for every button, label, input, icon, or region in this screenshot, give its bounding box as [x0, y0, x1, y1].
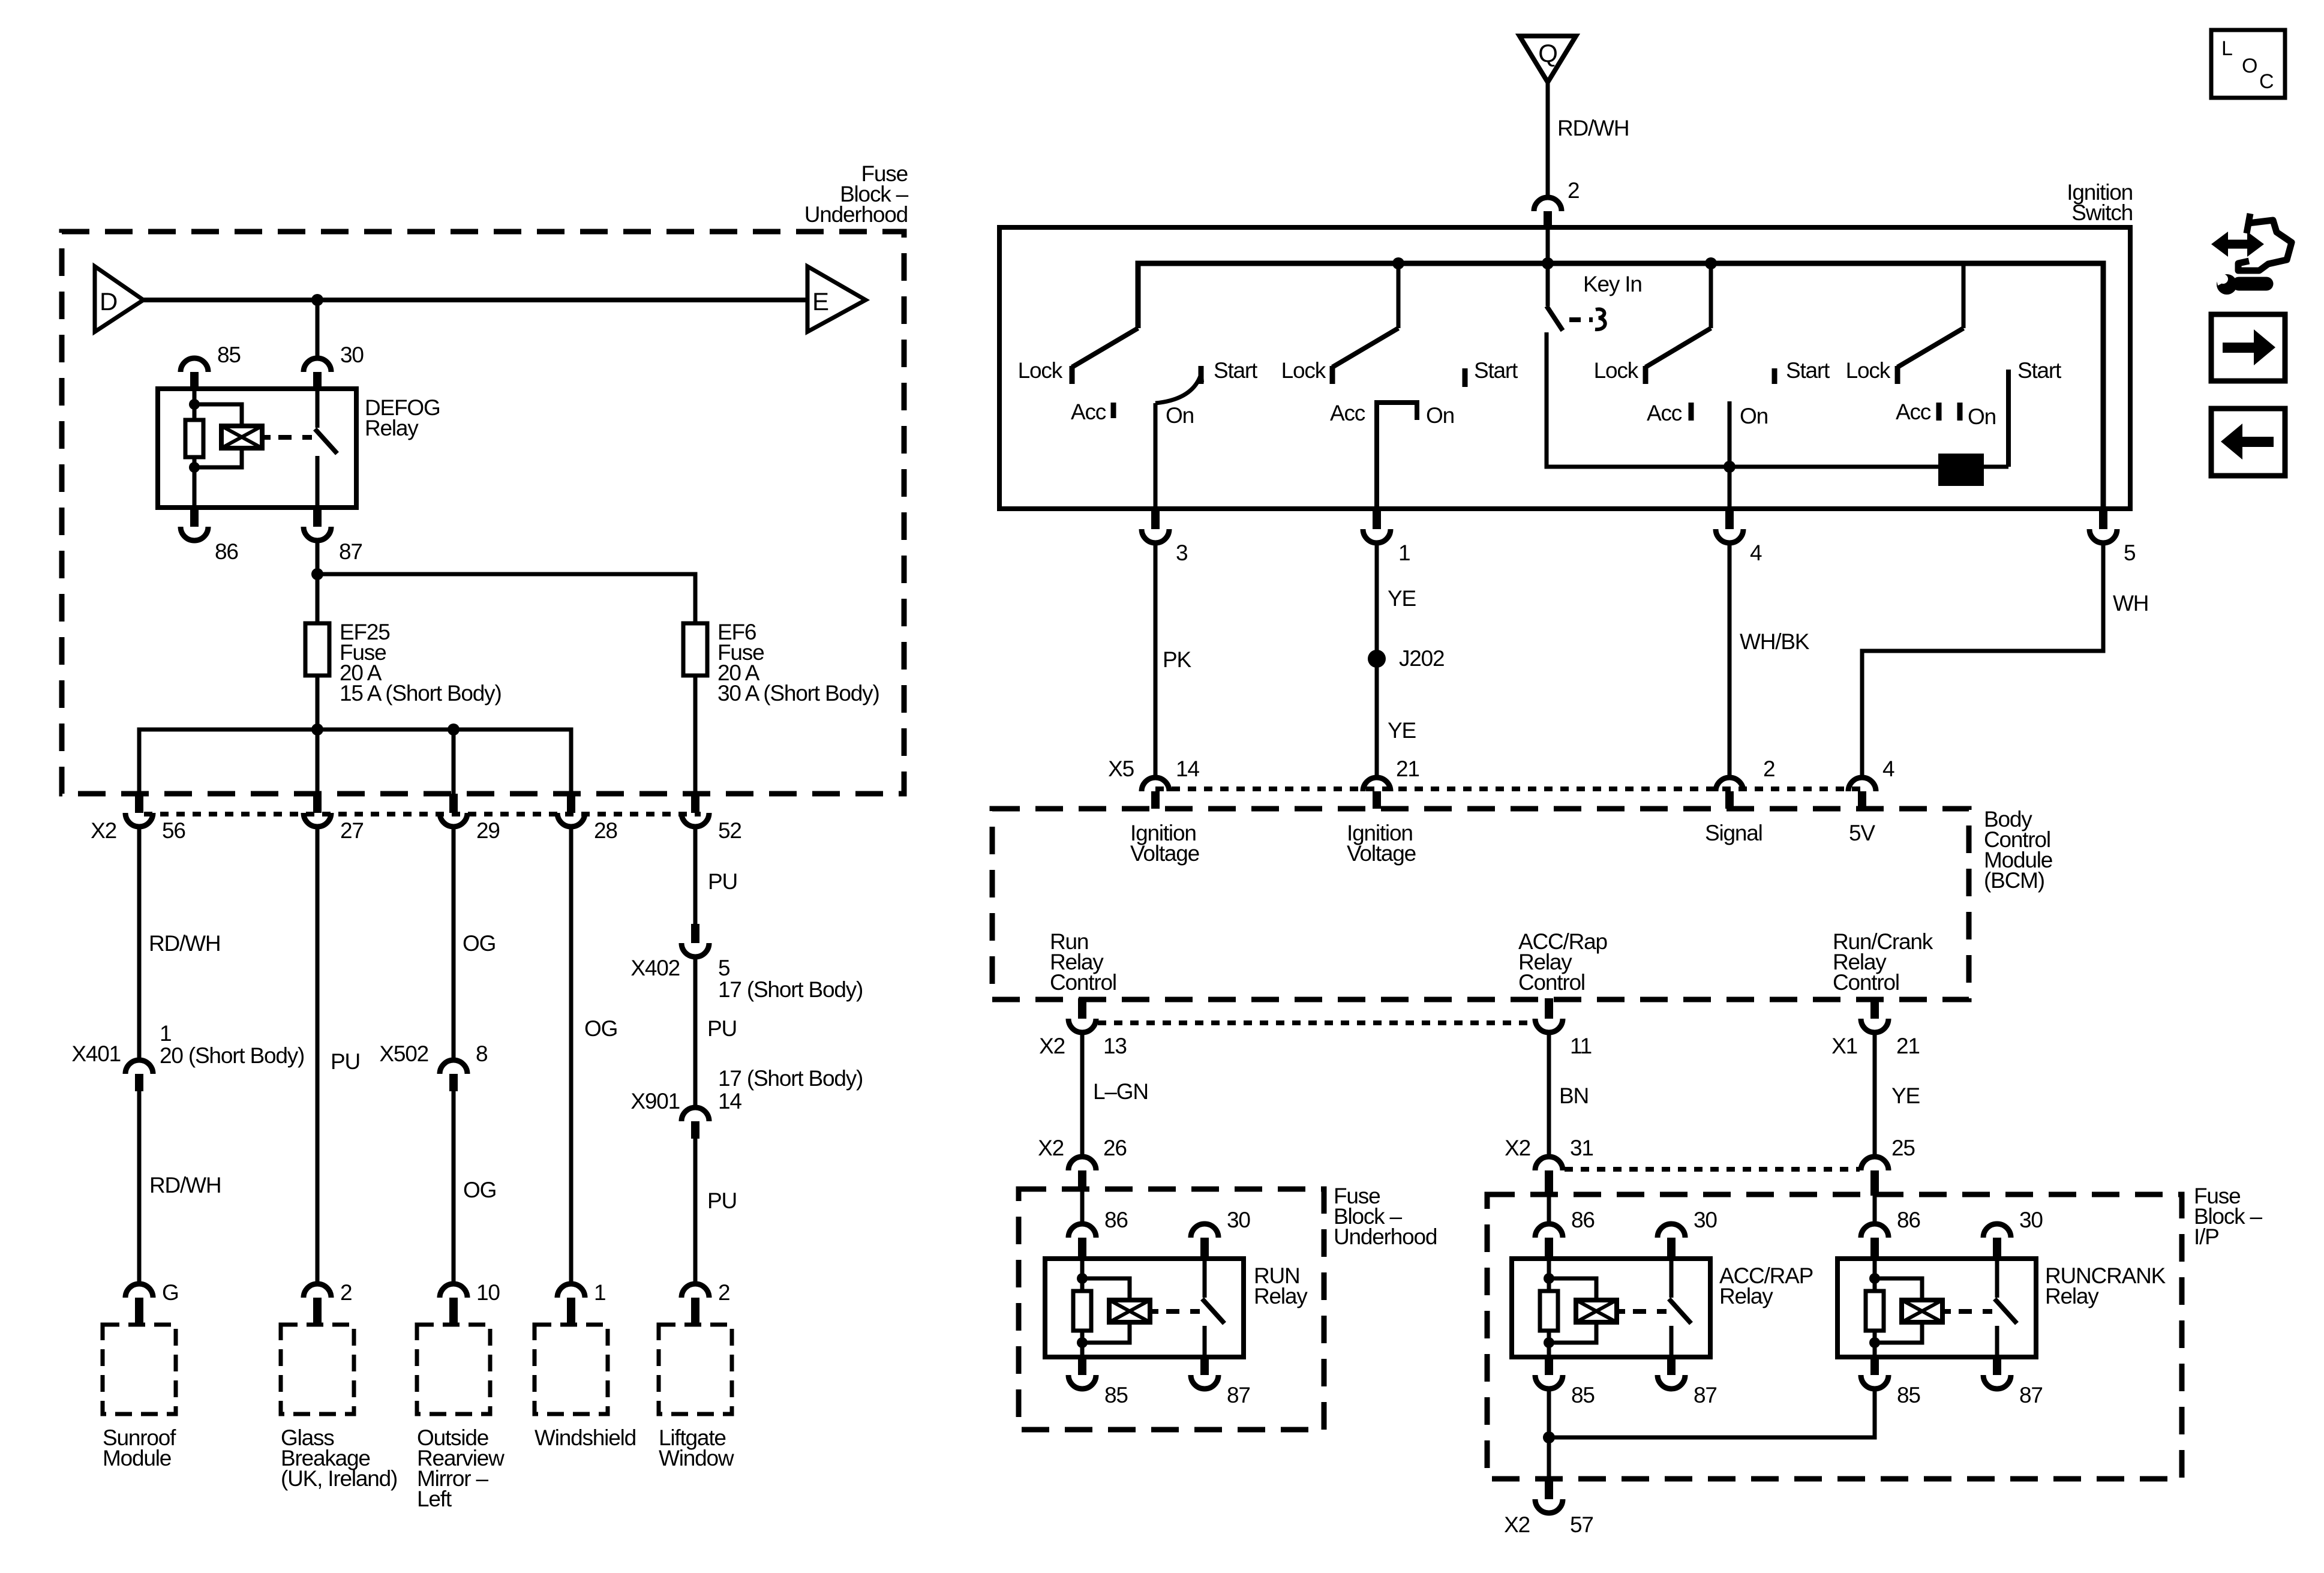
svg-text:PU: PU [331, 1049, 360, 1074]
DEFOG switch [316, 389, 320, 428]
svg-text:Module: Module [103, 1446, 171, 1470]
wire liftgate col upper [693, 827, 698, 925]
svg-text:YE: YE [1891, 1083, 1920, 1108]
wire RUNCRANK 85 to node [1549, 1389, 1875, 1437]
svg-text:(BCM): (BCM) [1984, 868, 2044, 893]
svg-text:85: 85 [1897, 1383, 1920, 1407]
svg-text:X5: X5 [1108, 757, 1134, 781]
fuse EF6 [683, 623, 707, 676]
svg-text:Voltage: Voltage [1347, 841, 1416, 866]
svg-text:52: 52 [718, 818, 741, 843]
svg-text:87: 87 [2019, 1383, 2043, 1407]
svg-text:5: 5 [2124, 541, 2136, 565]
svg-text:Start: Start [1786, 358, 1830, 383]
DEFOG junction bottom [189, 462, 200, 473]
svg-text:Lock: Lock [1281, 358, 1326, 383]
svg-text:87: 87 [339, 539, 362, 564]
RUNCRANK relay coil branch wire [1873, 1259, 1877, 1355]
RUN relay coil parallel wire [1082, 1278, 1130, 1300]
sw1 On-Start curved arm [1155, 374, 1201, 403]
svg-text:Underhood: Underhood [804, 202, 908, 227]
svg-text:56: 56 [162, 818, 185, 843]
sw5 Lock contact [1895, 366, 1900, 384]
ACC/RAP relay coil branch wire [1547, 1259, 1551, 1355]
svg-text:Left: Left [417, 1487, 452, 1511]
svg-text:2: 2 [340, 1280, 352, 1305]
sw5 On contact [1957, 403, 1963, 421]
DEFOG junction top [189, 399, 200, 410]
svg-text:30: 30 [2019, 1208, 2043, 1232]
BCM pin 14 connector [1142, 778, 1169, 791]
connector X901 [681, 1107, 709, 1121]
svg-text:31: 31 [1570, 1136, 1593, 1160]
ACC/RAP relay actuator dashed link [1617, 1309, 1625, 1314]
svg-text:X402: X402 [630, 956, 680, 980]
ignition pin 5 connector [2099, 511, 2107, 529]
BCM pin 11 connector [1545, 998, 1553, 1019]
svg-text:G: G [162, 1280, 179, 1305]
ACC/RAP relay switch [1670, 1259, 1674, 1298]
fuse EF25 [305, 623, 329, 676]
svg-text:L–GN: L–GN [1093, 1079, 1148, 1104]
svg-text:(UK, Ireland): (UK, Ireland) [281, 1466, 397, 1491]
svg-text:21: 21 [1396, 757, 1419, 781]
svg-text:Window: Window [659, 1446, 734, 1470]
wire EF6 down [693, 676, 698, 794]
wire pin2 to bus [1546, 229, 1550, 263]
ACC/RAP relay pin 87 connector [1667, 1355, 1676, 1375]
sw5 Start contact wire [2006, 370, 2011, 467]
ACC/RAP relay coil [1576, 1300, 1617, 1322]
RUN relay switch [1203, 1259, 1207, 1298]
ignition resistor (bypass) [1938, 454, 1984, 486]
svg-text:13: 13 [1103, 1034, 1127, 1058]
ACC/RAP relay junction top [1544, 1273, 1554, 1284]
wire pin5 WH to BCM [1862, 542, 2103, 779]
svg-text:X2: X2 [91, 818, 116, 843]
RUN relay pin 85 connector [1078, 1355, 1086, 1375]
svg-text:Relay: Relay [1719, 1284, 1773, 1308]
svg-text:X901: X901 [630, 1089, 680, 1113]
connector X2-26 [1068, 1157, 1096, 1170]
RUNCRANK relay junction top [1869, 1273, 1880, 1284]
wire 13 to X2-26 [1080, 1033, 1085, 1156]
svg-text:On: On [1426, 403, 1454, 428]
wire pin3 to BCM [1154, 542, 1158, 779]
svg-text:11: 11 [1570, 1034, 1592, 1058]
wire liftgate col mid [693, 957, 698, 1107]
svg-text:Underhood: Underhood [1334, 1224, 1437, 1249]
svg-text:14: 14 [718, 1089, 741, 1113]
svg-text:Acc: Acc [1647, 401, 1682, 425]
svg-text:Start: Start [1214, 358, 1258, 383]
svg-text:RD/WH: RD/WH [149, 1173, 221, 1197]
svg-text:10: 10 [476, 1280, 500, 1305]
svg-text:1: 1 [594, 1280, 605, 1305]
svg-text:WH/BK: WH/BK [1740, 629, 1810, 654]
RUN relay coil [1109, 1300, 1150, 1322]
sunroof pin G connector [125, 1284, 153, 1298]
wire EF25 down [316, 676, 320, 794]
key symbol [1595, 309, 1605, 329]
DEFOG coil branch wire [193, 389, 197, 508]
back arrow box [2211, 409, 2285, 476]
svg-text:On: On [1166, 403, 1194, 428]
RUN relay box [1045, 1259, 1244, 1357]
wire mirror col upper [452, 827, 456, 1059]
ACC/RAP relay box [1512, 1259, 1710, 1357]
LOC reference box [2211, 30, 2285, 98]
fuse block pin 56 connector [135, 794, 143, 813]
svg-text:30: 30 [1227, 1208, 1250, 1232]
RUN relay actuator dashed link [1150, 1309, 1158, 1314]
svg-text:Windshield: Windshield [535, 1425, 636, 1450]
svg-text:Lock: Lock [1018, 358, 1063, 383]
sw2 On contact elbow [1377, 403, 1417, 509]
svg-text:X401: X401 [71, 1041, 121, 1066]
BCM pin 13 connector [1078, 998, 1086, 1019]
ignition switch wafer 2 arm [1397, 263, 1401, 328]
svg-text:Switch: Switch [2071, 200, 2133, 225]
svg-text:C: C [2259, 70, 2274, 93]
wire pin1 to BCM [1375, 542, 1379, 779]
svg-text:30 A (Short Body): 30 A (Short Body) [717, 681, 879, 706]
svg-text:I/P: I/P [2194, 1224, 2219, 1249]
svg-text:PK: PK [1163, 647, 1191, 672]
svg-text:86: 86 [1571, 1208, 1595, 1232]
wire X2-26 to RUN 86 [1080, 1190, 1085, 1223]
svg-text:4: 4 [1750, 541, 1762, 565]
DEFOG resistor [185, 420, 203, 457]
RUNCRANK relay pin 87 connector [1993, 1355, 2001, 1375]
svg-text:28: 28 [594, 818, 617, 843]
wire glass col [316, 827, 320, 1284]
RUNCRANK relay switch [1995, 1259, 1999, 1298]
svg-text:OG: OG [463, 931, 496, 956]
svg-text:4: 4 [1882, 757, 1894, 781]
connector X502 [440, 1060, 467, 1074]
BCM connector dotted line [1155, 786, 1862, 791]
DEFOG relay pin 85 connector [181, 358, 208, 372]
RUN relay coil branch wire [1080, 1259, 1085, 1355]
svg-text:OG: OG [463, 1178, 496, 1202]
wire D to E [143, 298, 807, 302]
node ACC85/RUNCRANK85 [1543, 1431, 1555, 1443]
connector D (in-line arrow) [95, 266, 143, 332]
ACC/RAP relay pin 85 connector [1545, 1355, 1553, 1375]
wire mirror branch [452, 730, 456, 794]
RUNCRANK relay coil [1902, 1300, 1942, 1322]
key-in dashed link [1569, 317, 1593, 322]
svg-text:5: 5 [718, 956, 730, 980]
svg-text:30: 30 [1694, 1208, 1717, 1232]
svg-text:86: 86 [1104, 1208, 1128, 1232]
svg-text:25: 25 [1891, 1136, 1915, 1160]
wire Q down [1546, 82, 1550, 197]
BCM pin 4 connector [1848, 778, 1876, 791]
svg-text:X1: X1 [1831, 1034, 1857, 1058]
node bus keyin [1542, 257, 1554, 269]
ignition switch wafer 4 arm [1709, 263, 1713, 328]
glass pin 2 connector [304, 1284, 331, 1298]
svg-text:BN: BN [1559, 1083, 1589, 1108]
connector E (in-line arrow) [807, 266, 866, 332]
RUNCRANK relay pin 30 connector [1983, 1224, 2011, 1238]
svg-text:On: On [1740, 404, 1768, 428]
RUNCRANK relay pin 85 connector [1870, 1355, 1879, 1375]
wire windshield col [569, 827, 574, 1284]
splice J202 [1368, 650, 1386, 668]
BCM pin 2 connector [1716, 778, 1743, 791]
node bus mirror branch [448, 724, 460, 736]
connectors 31-25 dotted line [1565, 1167, 1860, 1172]
ACC/RAP relay resistor [1540, 1291, 1558, 1331]
svg-text:Control: Control [1833, 970, 1899, 995]
ignition pin 3 connector [1151, 511, 1160, 529]
svg-text:8: 8 [476, 1041, 487, 1066]
svg-text:RD/WH: RD/WH [1557, 116, 1629, 140]
connector X401 [125, 1060, 153, 1074]
RUN relay pin 87 connector [1200, 1355, 1209, 1375]
svg-text:Relay: Relay [2045, 1284, 2099, 1308]
distribution bus under EF25 [139, 730, 571, 794]
DEFOG coil parallel wire [194, 404, 242, 426]
svg-text:PU: PU [707, 1188, 737, 1213]
node bus EF25 [311, 724, 323, 736]
svg-text:87: 87 [1227, 1383, 1250, 1407]
fuse block underhood (run relay) dashed box [1019, 1189, 1324, 1430]
svg-text:20 (Short Body): 20 (Short Body) [160, 1043, 304, 1068]
fuse block pin 27 connector [313, 794, 322, 813]
svg-text:YE: YE [1388, 586, 1416, 611]
svg-text:X502: X502 [379, 1041, 428, 1066]
wire to DEFOG relay pin 30 [316, 300, 320, 359]
ignition bus [1138, 263, 2103, 509]
wire sunroof col upper [137, 827, 142, 1059]
svg-text:Acc: Acc [1330, 401, 1365, 425]
node on D-E wire [311, 294, 323, 306]
svg-text:Control: Control [1518, 970, 1585, 995]
svg-text:PU: PU [707, 1016, 737, 1041]
svg-text:Q: Q [1538, 39, 1557, 67]
sw4 Start contact [1772, 368, 1777, 384]
fuse block underhood dashed box [62, 232, 904, 794]
sw1 Start contact [1199, 366, 1204, 384]
forward arrow box [2211, 314, 2285, 381]
svg-text:Start: Start [2017, 358, 2062, 383]
svg-text:86: 86 [1897, 1208, 1920, 1232]
sw1 On wire [1154, 403, 1158, 509]
RUNCRANK relay pin 86 connector [1861, 1224, 1888, 1238]
connector Q (power feed arrow) [1520, 36, 1576, 82]
ignition switch wafer 1 arm [1072, 328, 1138, 367]
wire pin4 to BCM [1728, 542, 1732, 779]
sunroof module box [103, 1325, 176, 1414]
connector X402 [691, 924, 699, 943]
data link / diagnostics icon [2211, 214, 2292, 295]
ACC/RAP relay pin 30 connector [1658, 1224, 1685, 1238]
svg-text:85: 85 [1104, 1383, 1128, 1407]
svg-text:2: 2 [1568, 178, 1579, 203]
ignition pin 1 connector [1373, 511, 1381, 529]
mirror pin 10 connector [440, 1284, 467, 1298]
svg-text:PU: PU [708, 869, 737, 894]
svg-text:87: 87 [1694, 1383, 1717, 1407]
svg-text:29: 29 [476, 818, 500, 843]
svg-text:Relay: Relay [1254, 1284, 1308, 1308]
fuse block pin 28 connector [567, 794, 575, 813]
ACC/RAP relay pin 86 connector [1535, 1224, 1563, 1238]
svg-text:L: L [2221, 37, 2232, 60]
DEFOG relay pin 87 connector [313, 509, 322, 527]
DEFOG coil [221, 426, 262, 448]
ignition switch wafer 5 arm [1962, 263, 1966, 328]
ignition switch box [999, 227, 2130, 509]
wire to EF6 [317, 574, 695, 623]
svg-text:X2: X2 [1038, 1136, 1064, 1160]
RUN relay pin 30 connector [1191, 1224, 1218, 1238]
svg-text:1: 1 [160, 1021, 171, 1046]
svg-text:5V: 5V [1849, 821, 1875, 845]
svg-text:X2: X2 [1505, 1136, 1530, 1160]
RUN relay junction bottom [1077, 1337, 1088, 1348]
svg-text:21: 21 [1896, 1034, 1920, 1058]
svg-text:E: E [812, 287, 828, 316]
svg-text:OG: OG [584, 1016, 617, 1041]
liftgate pin 2 connector [681, 1284, 709, 1298]
sw4 Lock contact [1643, 366, 1649, 384]
key-in switch arm [1546, 263, 1550, 306]
svg-text:D: D [100, 287, 117, 316]
RUNCRANK relay actuator dashed link [1942, 1309, 1951, 1314]
svg-text:85: 85 [217, 343, 241, 367]
svg-text:1: 1 [1398, 541, 1410, 565]
wire sunroof col lower [137, 1091, 142, 1284]
sw2 Lock contact [1330, 366, 1335, 384]
svg-text:14: 14 [1176, 757, 1199, 781]
ignition pin 2 connector [1534, 197, 1562, 211]
svg-text:17 (Short Body): 17 (Short Body) [718, 977, 863, 1002]
wire X1-25 to RUNCRANK 86 [1873, 1196, 1877, 1223]
connector X2 dotted line [144, 812, 701, 816]
svg-text:57: 57 [1570, 1512, 1593, 1537]
svg-text:Control: Control [1050, 970, 1116, 995]
connector X1-25 [1861, 1157, 1888, 1170]
svg-text:Start: Start [1474, 358, 1518, 383]
svg-text:X2: X2 [1504, 1512, 1530, 1537]
sw2 Start contact [1463, 368, 1468, 387]
connector X2-31 [1535, 1157, 1563, 1170]
svg-text:Voltage: Voltage [1130, 841, 1199, 866]
svg-text:On: On [1968, 404, 1996, 429]
svg-text:Signal: Signal [1705, 821, 1762, 845]
svg-text:Lock: Lock [1846, 358, 1891, 383]
RUNCRANK relay coil parallel wire [1875, 1278, 1922, 1300]
wire from DEFOG 87 down [316, 540, 320, 623]
BCM dashed box [992, 809, 1969, 999]
sw4 On wire [1728, 401, 1732, 509]
svg-text:27: 27 [340, 818, 364, 843]
svg-text:X2: X2 [1039, 1034, 1065, 1058]
wire liftgate col lower [693, 1139, 698, 1284]
node resistor line [1724, 461, 1736, 473]
fuse block I/P dashed box [1487, 1194, 2182, 1479]
ignition pin 4 connector [1725, 511, 1734, 529]
RUNCRANK relay box [1837, 1259, 2036, 1357]
wire X2-31 to ACC 86 [1547, 1196, 1551, 1223]
svg-text:2: 2 [1763, 757, 1774, 781]
ACC/RAP relay coil parallel wire [1549, 1278, 1596, 1300]
DEFOG relay box [158, 389, 356, 508]
svg-text:2: 2 [718, 1280, 729, 1305]
node bus sw2 [1392, 257, 1404, 269]
key-in lower wire [1547, 332, 2008, 467]
svg-text:26: 26 [1103, 1136, 1127, 1160]
svg-text:17 (Short Body): 17 (Short Body) [718, 1066, 863, 1091]
svg-text:85: 85 [1571, 1383, 1595, 1407]
svg-text:Acc: Acc [1071, 400, 1106, 424]
liftgate window box [659, 1325, 732, 1414]
fuse block pin 52 connector [691, 794, 699, 813]
windshield pin 1 connector [557, 1284, 585, 1298]
fuse block pin 29 connector [449, 794, 458, 813]
svg-text:Relay: Relay [365, 416, 419, 440]
svg-text:3: 3 [1176, 541, 1187, 565]
svg-text:YE: YE [1388, 718, 1416, 743]
svg-text:WH: WH [2113, 591, 2148, 616]
RUNCRANK relay junction bottom [1869, 1337, 1880, 1348]
connector X2-57 [1545, 1479, 1553, 1499]
svg-text:O: O [2242, 55, 2257, 77]
BCM pin 21 output connector [1870, 998, 1879, 1019]
wire 21 to X1-25 [1873, 1033, 1877, 1156]
node above EF25 [311, 568, 323, 580]
svg-text:Lock: Lock [1594, 358, 1639, 383]
svg-text:30: 30 [340, 343, 364, 367]
wire 11 to X2-31 [1547, 1033, 1551, 1156]
sw1 Lock contact [1070, 366, 1075, 384]
svg-text:RD/WH: RD/WH [149, 931, 220, 956]
RUNCRANK relay resistor [1866, 1291, 1884, 1331]
wire ACC 85 down [1547, 1389, 1551, 1479]
BCM pins 13-11 dotted line [1098, 1020, 1533, 1025]
wire mirror col lower [452, 1091, 456, 1284]
DEFOG relay pin 86 connector [190, 509, 199, 527]
RUN relay junction top [1077, 1273, 1088, 1284]
DEFOG actuator dashed link [262, 435, 271, 440]
windshield module box [535, 1325, 608, 1414]
node bus sw4 [1705, 257, 1717, 269]
svg-text:Acc: Acc [1896, 400, 1931, 424]
svg-text:Key In: Key In [1583, 272, 1642, 296]
RUN relay resistor [1073, 1291, 1091, 1331]
outside rearview mirror box [417, 1325, 490, 1414]
svg-text:86: 86 [215, 539, 238, 564]
RUN relay pin 86 connector [1068, 1224, 1096, 1238]
glass breakage module box [281, 1325, 354, 1414]
ACC/RAP relay junction bottom [1544, 1337, 1554, 1348]
BCM pin 21 connector [1363, 778, 1391, 791]
svg-text:15 A (Short Body): 15 A (Short Body) [340, 681, 502, 706]
DEFOG relay pin 30 connector [304, 358, 331, 372]
svg-text:J202: J202 [1399, 646, 1444, 671]
